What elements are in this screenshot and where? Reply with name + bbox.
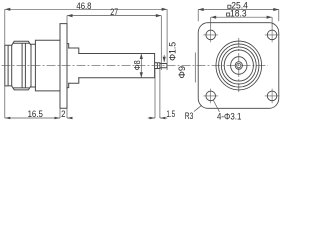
svg-text:R3: R3: [185, 110, 194, 121]
svg-text:2: 2: [61, 108, 65, 119]
svg-text:4-Φ3.1: 4-Φ3.1: [217, 111, 241, 122]
svg-text:46.8: 46.8: [76, 0, 91, 11]
svg-text:Φ1.5: Φ1.5: [167, 42, 178, 61]
svg-text:Φ8: Φ8: [133, 60, 142, 70]
svg-text:16.5: 16.5: [28, 108, 43, 119]
svg-text:18.3: 18.3: [230, 7, 247, 18]
svg-text:1.5: 1.5: [166, 108, 175, 119]
svg-text:Φ9: Φ9: [176, 66, 187, 79]
svg-text:27: 27: [110, 6, 118, 17]
